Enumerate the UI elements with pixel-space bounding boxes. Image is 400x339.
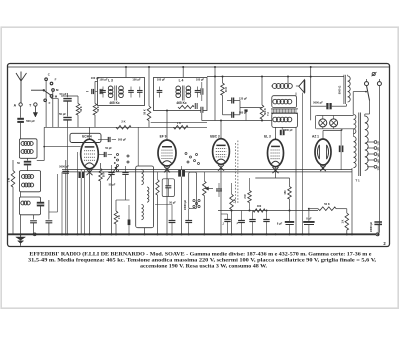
- capacitor 01 uF V3: [238, 220, 245, 222]
- wire speaker top: [310, 67, 312, 77]
- svg-text:30 K: 30 K: [225, 87, 228, 92]
- capacitor 500 pF V1 right: [107, 137, 109, 142]
- junction dots ground bus: [20, 233, 22, 235]
- junction dots mid: [166, 110, 168, 112]
- capacitor 10000 pF mains: [374, 221, 382, 223]
- svg-text:100 pF: 100 pF: [196, 78, 205, 82]
- svg-text:10000 pF: 10000 pF: [370, 221, 373, 232]
- capacitor paper under V2: [178, 170, 185, 177]
- tone box under V2: [162, 179, 174, 197]
- wire rf top link: [95, 80, 98, 82]
- wire V3 plate: [220, 121, 222, 139]
- capacitor L3 right 100 pF: [128, 90, 134, 92]
- capacitor lower c black bar: [128, 220, 131, 226]
- capacitor AZ1 side: [339, 146, 344, 153]
- power transformer T1 secondary: [365, 116, 368, 170]
- wire V5 top: [322, 131, 324, 140]
- capacitor L3 right2: [137, 90, 143, 92]
- svg-text:50 K: 50 K: [143, 109, 146, 114]
- svg-text:F: F: [49, 101, 51, 105]
- coil L1 windings: [21, 142, 25, 146]
- wire B+ line: [317, 210, 319, 212]
- resistor 1 K screen: [174, 126, 189, 130]
- dial lamp 2: [330, 119, 338, 127]
- svg-text:8 μF: 8 μF: [277, 222, 283, 226]
- wire det mid link: [239, 101, 241, 115]
- svg-text:500 pF: 500 pF: [26, 119, 35, 123]
- contacts under V2: [193, 200, 195, 202]
- svg-text:125 pF: 125 pF: [239, 96, 248, 100]
- svg-text:160: 160: [378, 159, 381, 164]
- T1 tap 220: [367, 166, 374, 168]
- wire V1 cathode: [89, 169, 91, 234]
- svg-text:EF 9: EF 9: [160, 135, 167, 139]
- svg-text:EBC 3: EBC 3: [210, 135, 220, 139]
- resistor 2 K screen: [116, 126, 131, 130]
- capacitor under V2 b: [185, 220, 192, 222]
- wire V5 cathode: [322, 165, 324, 170]
- wire V2 plate: [166, 111, 168, 139]
- tube V3 EBC3: [213, 139, 230, 165]
- svg-text:1 M: 1 M: [233, 199, 236, 203]
- dial lamp 1: [319, 119, 327, 127]
- capacitor 01 uF V3 cathode: [224, 219, 230, 221]
- wire grid link V1: [44, 146, 80, 148]
- wire mains vertical: [378, 86, 380, 233]
- wire V3 cathode: [220, 165, 222, 234]
- wire det top: [207, 76, 344, 78]
- resistor 400 ohm AVC: [253, 209, 265, 212]
- svg-text:50 K: 50 K: [97, 106, 100, 111]
- svg-text:50: 50: [17, 161, 20, 165]
- output transformer T2 core: [271, 108, 298, 110]
- T1 tap 125: [367, 147, 374, 149]
- T1 tap 160: [367, 159, 374, 161]
- svg-text:L 3: L 3: [108, 79, 113, 83]
- mains switch lever: [367, 86, 370, 101]
- terminal A: [19, 103, 22, 106]
- wire det drop b: [287, 77, 289, 84]
- power transformer T1 primary upper: [354, 115, 356, 134]
- IF transformer L4 secondary: [186, 86, 191, 91]
- tube V1 ECH4: [81, 139, 99, 169]
- IF transformer L3 primary: [108, 86, 113, 91]
- svg-text:accensione 190 V. Resa uscita: accensione 190 V. Resa uscita 3 W, consu…: [140, 263, 268, 269]
- coil L2 windings: [22, 175, 26, 179]
- svg-text:50 pF: 50 pF: [105, 147, 112, 150]
- wire osc box drop: [144, 228, 146, 235]
- svg-text:150: 150: [284, 190, 287, 195]
- oscillator coil L5 winding 2: [147, 187, 149, 202]
- svg-text:220: 220: [378, 166, 381, 171]
- IF transformer L4 box: [154, 78, 208, 111]
- svg-text:5000 Ω: 5000 Ω: [338, 86, 342, 95]
- svg-text:50 pF: 50 pF: [109, 183, 116, 187]
- wire choke top: [347, 75, 349, 76]
- svg-text:8 μF: 8 μF: [306, 216, 312, 220]
- output transformer T2 primary winding: [273, 99, 278, 104]
- IF transformer L4 core: [181, 86, 183, 101]
- wire top supply bus: [8, 66, 390, 68]
- svg-text:400: 400: [257, 204, 262, 208]
- wire switch drop 2: [52, 91, 54, 127]
- wire heater line lower: [62, 171, 352, 173]
- wire screen line: [44, 126, 144, 128]
- capacitor stub small: [244, 109, 247, 111]
- IF transformer L3 core: [114, 86, 116, 101]
- speaker: [299, 80, 305, 93]
- svg-text:50 K: 50 K: [324, 202, 330, 206]
- resistor 30 K det: [222, 77, 224, 84]
- wire V1 plate: [89, 127, 91, 137]
- capacitor L4 right 100 pF: [195, 90, 201, 92]
- svg-text:50 K: 50 K: [80, 106, 83, 111]
- capacitor under V2 a: [169, 220, 176, 222]
- svg-text:T 2: T 2: [266, 112, 270, 116]
- wire IF dropper: [148, 67, 150, 106]
- coil L2a windings: [21, 201, 25, 205]
- svg-text:50 pF: 50 pF: [59, 112, 66, 116]
- capacitor under V1 d: [122, 172, 128, 174]
- capacitor L4 bottom black: [195, 103, 198, 109]
- wire left riser: [43, 127, 45, 160]
- oscillator coil L5 winding 3: [142, 205, 144, 220]
- trimmer with arrow: [108, 172, 114, 174]
- switch contacts column A: [117, 154, 119, 156]
- tall box under V2: [189, 172, 197, 209]
- coil L2 box: [19, 171, 40, 192]
- resistor 1 M antenna: [12, 160, 14, 171]
- wire V4 cathode link: [255, 177, 289, 179]
- capacitor 5000 pF output: [311, 105, 327, 107]
- capacitor 50 pF V3 grid: [216, 188, 222, 190]
- resistor osc grid: [77, 96, 79, 104]
- wire tone link: [155, 204, 172, 206]
- wire lamp rail lower: [316, 128, 353, 130]
- capacitor det black 2: [200, 107, 203, 113]
- svg-text:T 1: T 1: [355, 179, 360, 183]
- power transformer T1 primary lower: [354, 137, 357, 168]
- capacitor trimmer 50 pF: [27, 158, 29, 161]
- svg-text:500 pF: 500 pF: [118, 138, 127, 142]
- capacitor L4 left 100 pF: [157, 90, 163, 92]
- svg-text:1 K: 1 K: [177, 121, 181, 125]
- capacitor 125 pF: [231, 98, 233, 104]
- wire ground bus: [8, 233, 377, 235]
- wire lamp feed: [315, 116, 317, 129]
- svg-text:100 pF: 100 pF: [132, 78, 141, 82]
- capacitor 8 uF filter: [308, 209, 310, 221]
- wire antenna coil common: [20, 158, 22, 170]
- wire V2 cathode: [166, 166, 168, 234]
- resistor 2 M AVC: [249, 189, 251, 191]
- resistor 150 ohm V4: [289, 178, 291, 187]
- svg-text:5000 pF: 5000 pF: [283, 129, 293, 132]
- svg-text:10000 pF: 10000 pF: [184, 199, 187, 210]
- T1 tap 110: [367, 141, 374, 143]
- switch contacts column B: [185, 153, 187, 155]
- svg-text:1 M: 1 M: [7, 177, 11, 182]
- resistor 50 K dropper: [147, 106, 151, 121]
- wire T1 secondary top: [364, 114, 366, 118]
- tube V4 EL3: [268, 139, 284, 166]
- wire mid bus: [202, 120, 272, 122]
- wire heater left drop: [61, 172, 63, 234]
- svg-text:EFFEDIBI' RADIO (F.LLI DE BERN: EFFEDIBI' RADIO (F.LLI DE BERNARDO - Mod…: [29, 251, 372, 258]
- IF transformer L4 primary: [176, 86, 181, 91]
- wire V4 cathode: [275, 167, 277, 178]
- wire T1 bottom drop: [351, 168, 353, 234]
- wire speaker down: [295, 93, 297, 96]
- svg-text:125: 125: [378, 147, 381, 152]
- svg-text:100 pF: 100 pF: [91, 76, 100, 80]
- wire osc trimmer drop: [67, 127, 69, 234]
- svg-text:465 Kc: 465 Kc: [109, 101, 120, 105]
- svg-text:50 pF: 50 pF: [169, 202, 176, 205]
- wire speaker ground: [302, 93, 304, 235]
- wire screen upper link: [151, 121, 207, 123]
- capacitor bypass left 1: [33, 215, 35, 220]
- capacitor 8 uF V4: [289, 211, 291, 222]
- wire lamp rail upper: [316, 115, 353, 117]
- dashed AVC line: [234, 143, 236, 204]
- svg-text:100 pF: 100 pF: [99, 78, 108, 82]
- output transformer T2 speaker winding: [272, 84, 277, 89]
- capacitor 50 pF V1 right: [103, 152, 105, 157]
- output transformer T2 secondary box: [272, 113, 298, 127]
- svg-text:110: 110: [378, 141, 381, 146]
- resistor 500 K det: [261, 77, 263, 106]
- terminal T: [34, 103, 37, 106]
- coil L2a box: [19, 197, 40, 215]
- capacitor 500 pF det: [231, 112, 233, 118]
- capacitor antenna series 500 pF: [20, 106, 22, 118]
- wire trimmer junction: [61, 95, 78, 97]
- power transformer T1 core: [358, 113, 360, 177]
- coil L1 box: [19, 139, 37, 159]
- band switch lever: [31, 89, 44, 91]
- wire L step: [57, 174, 59, 212]
- svg-text:5000 pF: 5000 pF: [313, 100, 323, 104]
- svg-text:50 pF: 50 pF: [59, 92, 66, 96]
- capacitor paper under V1: [79, 172, 85, 179]
- band switch S1: [45, 78, 48, 81]
- svg-text:EL 3: EL 3: [264, 135, 271, 139]
- filter choke: [343, 75, 345, 104]
- resistor 2 K lower: [114, 211, 118, 224]
- svg-text:2 K: 2 K: [121, 120, 125, 124]
- wire osc box feed: [137, 127, 139, 166]
- svg-text:50 K: 50 K: [102, 172, 105, 177]
- tube V5 AZ1: [315, 139, 331, 165]
- wire switch to secondary: [369, 101, 371, 115]
- T1 tap 140: [367, 153, 374, 155]
- svg-text:465 Kc: 465 Kc: [176, 101, 187, 105]
- capacitor L3 left 100 pF: [100, 90, 106, 92]
- IF transformer L3 box: [98, 78, 145, 106]
- svg-text:140: 140: [378, 153, 381, 158]
- wire T1 primary top: [352, 92, 354, 115]
- svg-text:1 K: 1 K: [341, 219, 344, 223]
- wire V1 pin b: [84, 170, 86, 235]
- capacitor det black 1: [200, 88, 203, 94]
- tube V1 shield box: [70, 133, 101, 142]
- node ground-bus end terminal: [376, 233, 379, 236]
- resistor cathode V1: [100, 163, 102, 169]
- ground arrow at T: [34, 106, 36, 113]
- wire V1 pin a: [77, 152, 79, 234]
- capacitor under bus extra 1: [263, 219, 269, 221]
- wire L4 side drop: [201, 111, 203, 121]
- oscillator coil L5 box: [136, 166, 154, 228]
- resistor field coil: [346, 209, 348, 213]
- wire heater line upper: [62, 169, 352, 171]
- resistor 1 M V3: [231, 183, 233, 194]
- svg-text:2 K: 2 K: [118, 215, 121, 219]
- svg-text:AZ 1: AZ 1: [312, 135, 319, 139]
- svg-text:ECH 4: ECH 4: [82, 135, 92, 139]
- svg-text:100 pF: 100 pF: [157, 78, 166, 82]
- resistor RF plate: [94, 81, 96, 103]
- wire switch drop 3: [57, 99, 59, 128]
- svg-text:L 4: L 4: [179, 79, 184, 83]
- tube V2 EF9: [158, 140, 176, 166]
- wire T2 to speaker: [296, 85, 299, 87]
- svg-text:5000 pF: 5000 pF: [59, 165, 69, 169]
- resistor 50 K filter: [318, 207, 336, 211]
- capacitor under bus extra 2: [249, 219, 255, 221]
- wire AVC feedback: [218, 210, 318, 212]
- ground: [20, 234, 22, 237]
- node open terminal left bus: [33, 233, 36, 236]
- wire switch drop 1: [45, 80, 47, 127]
- capacitor bypass left 2: [48, 200, 50, 220]
- resistor L4 bottom: [178, 105, 194, 108]
- output transformer T2 primary box: [272, 96, 297, 108]
- wire L3 feed: [125, 67, 127, 78]
- capacitor padder in L2a: [37, 202, 44, 207]
- svg-text:2 M: 2 M: [244, 194, 247, 198]
- wire primary link: [353, 91, 366, 93]
- wire L4 feed: [182, 67, 184, 78]
- mains plug: [365, 82, 369, 86]
- IF transformer L3 secondary: [119, 86, 124, 91]
- antenna: [20, 81, 22, 103]
- svg-text:F: F: [55, 78, 57, 82]
- output transformer T2 secondary winding: [273, 117, 278, 122]
- potentiometer volume: [203, 172, 205, 181]
- schematic frame: [8, 64, 390, 247]
- resistor under V2: [157, 172, 159, 180]
- oscillator coil L5 winding 1: [142, 170, 144, 185]
- wire det drop a: [214, 67, 216, 121]
